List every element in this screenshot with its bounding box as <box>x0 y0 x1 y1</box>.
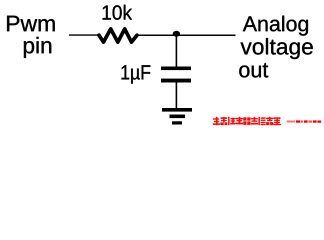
node Analog voltage out (output label) <box>239 16 313 78</box>
wire: Pwm pin to resistor R <box>69 34 100 36</box>
capacitor C 1uF <box>161 67 191 83</box>
watermark small url text <box>287 120 322 122</box>
wire: capacitor bottom plate to ground <box>175 83 177 109</box>
value label 10k <box>103 5 132 20</box>
wire: junction to capacitor top plate <box>175 35 177 67</box>
value label 1uF <box>121 65 150 83</box>
wire: resistor to output node <box>137 34 236 36</box>
junction dot (node A) <box>173 31 180 37</box>
ground <box>162 108 192 125</box>
node Pwm pin (input label) <box>7 16 55 58</box>
resistor R 10k <box>99 29 137 42</box>
watermark (red site text, drawn as vector marks) <box>213 117 321 125</box>
